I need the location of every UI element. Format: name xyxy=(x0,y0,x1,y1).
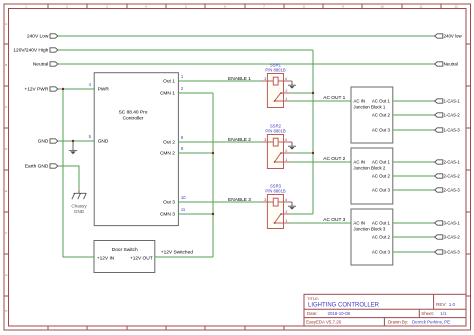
svg-text:CMN 1: CMN 1 xyxy=(160,91,175,97)
svg-text:240V Low: 240V Low xyxy=(27,34,49,40)
svg-text:3: 3 xyxy=(106,5,108,9)
svg-text:1: 1 xyxy=(285,158,287,162)
svg-text:+12V PWR: +12V PWR xyxy=(24,87,48,93)
svg-text:AC Out 2: AC Out 2 xyxy=(372,113,391,118)
ground symbol SSR2 coil xyxy=(288,142,296,150)
wire CMN 2 to bus xyxy=(178,152,213,154)
svg-text:SC 88.40 Pro: SC 88.40 Pro xyxy=(119,110,148,116)
controller pin numbers xyxy=(89,74,187,212)
svg-text:3: 3 xyxy=(264,138,266,142)
svg-text:AC Out 1: AC Out 1 xyxy=(372,221,391,226)
svg-text:B: B xyxy=(5,63,7,67)
svg-text:ENABLE 3: ENABLE 3 xyxy=(228,197,251,203)
svg-text:ENABLE 2: ENABLE 2 xyxy=(228,137,251,143)
relay SSR3 xyxy=(262,183,293,228)
svg-text:LIGHTING CONTROLLER: LIGHTING CONTROLLER xyxy=(308,302,380,308)
port GND xyxy=(38,139,58,145)
wire SSR1 pin2 to High bus xyxy=(290,92,314,94)
svg-text:P/N 8801B: P/N 8801B xyxy=(265,68,285,73)
port 1-CAS-3 xyxy=(435,128,461,133)
wire AC OUT 3 xyxy=(290,222,352,224)
port Neutral (right) xyxy=(435,62,458,67)
svg-text:REV:: REV: xyxy=(436,302,447,307)
svg-text:4: 4 xyxy=(285,77,287,81)
junction SSR2 High bus xyxy=(312,152,314,154)
wire JB3 out3 xyxy=(393,251,435,253)
port 3-CAS-1 xyxy=(435,221,461,226)
svg-text:3-CAS-3: 3-CAS-3 xyxy=(444,250,461,255)
svg-text:CMN 2: CMN 2 xyxy=(160,151,175,157)
port 240V low (right) xyxy=(435,34,463,39)
controller SC 88.40 Pro xyxy=(94,73,178,226)
port 1-CAS-2 xyxy=(435,113,461,118)
ground symbol SSR1 coil xyxy=(288,81,296,89)
svg-text:2-CAS-3: 2-CAS-3 xyxy=(444,188,461,193)
wire AC OUT 2 xyxy=(290,161,352,163)
port 3-CAS-2 xyxy=(435,235,461,240)
wire door switch out (+12V Switched) xyxy=(155,256,214,258)
door switch xyxy=(94,241,155,273)
svg-text:AC Out 3: AC Out 3 xyxy=(372,250,391,255)
svg-text:120V/240V High: 120V/240V High xyxy=(13,48,48,54)
port +12V PWR xyxy=(24,87,57,93)
svg-text:2-CAS-2: 2-CAS-2 xyxy=(444,174,461,179)
port 2-CAS-3 xyxy=(435,188,461,193)
svg-text:10: 10 xyxy=(181,195,186,200)
junction block 2 xyxy=(351,148,393,204)
wire Neutral rail xyxy=(58,63,435,65)
svg-text:AC Out 1: AC Out 1 xyxy=(372,99,391,104)
junction CMN3 xyxy=(212,213,214,215)
svg-text:1-CAS-3: 1-CAS-3 xyxy=(444,128,461,133)
wire JB3 out1 xyxy=(393,222,435,224)
svg-text:AC Out 2: AC Out 2 xyxy=(372,174,391,179)
svg-text:AC Out 3: AC Out 3 xyxy=(372,188,391,193)
wire High vertical bus xyxy=(312,50,314,214)
port 3-CAS-3 xyxy=(435,250,461,255)
svg-text:GND: GND xyxy=(38,139,49,145)
svg-text:2: 2 xyxy=(285,149,287,153)
svg-text:PWR: PWR xyxy=(98,87,110,93)
svg-text:AC Out 3: AC Out 3 xyxy=(372,128,391,133)
port 240V Low (left) xyxy=(27,34,58,40)
port 2-CAS-2 xyxy=(435,174,461,179)
svg-text:F: F xyxy=(5,231,7,235)
wire JB2 out3 xyxy=(393,189,435,191)
wire JB1 out2 xyxy=(393,114,435,116)
svg-text:P/N 8801B: P/N 8801B xyxy=(265,189,285,194)
svg-text:AC Out 1: AC Out 1 xyxy=(372,160,391,165)
relay SSR3 pin numbers xyxy=(264,198,287,223)
svg-text:EasyEDA V5.7.26: EasyEDA V5.7.26 xyxy=(306,320,341,325)
svg-text:1: 1 xyxy=(285,97,287,101)
svg-text:5: 5 xyxy=(185,5,187,9)
junction GND xyxy=(72,140,74,142)
ground symbol SSR3 coil xyxy=(288,202,296,210)
svg-text:Derrick Perkins, PE: Derrick Perkins, PE xyxy=(412,320,450,325)
relay SSR1 pin numbers xyxy=(264,77,287,101)
svg-text:4: 4 xyxy=(285,198,287,202)
svg-text:Chassy: Chassy xyxy=(71,204,87,209)
wire JB1 out3 xyxy=(393,129,435,131)
wire CMN 1 to bus xyxy=(178,92,213,94)
wire GND to controller GND pin xyxy=(58,140,94,142)
svg-text:1/1: 1/1 xyxy=(440,311,447,316)
svg-text:Date:: Date: xyxy=(307,311,318,316)
svg-text:3-CAS-1: 3-CAS-1 xyxy=(444,221,461,226)
svg-text:Controller: Controller xyxy=(123,116,144,122)
svg-text:4: 4 xyxy=(285,138,287,142)
svg-text:9: 9 xyxy=(342,5,344,9)
wire JB2 out2 xyxy=(393,175,435,177)
svg-text:3: 3 xyxy=(264,77,266,81)
wire CMN vertical bus (+12V Switched) xyxy=(212,93,214,257)
wire JB3 out2 xyxy=(393,236,435,238)
port Neutral (left) xyxy=(33,62,58,68)
svg-text:Junction Block 1: Junction Block 1 xyxy=(353,105,386,110)
svg-text:ENABLE 1: ENABLE 1 xyxy=(228,76,251,82)
relay SSR1 xyxy=(262,62,293,107)
wire Earth GND to chassis xyxy=(58,166,79,191)
svg-text:2: 2 xyxy=(285,210,287,214)
svg-text:7: 7 xyxy=(263,5,265,9)
junction block 1 xyxy=(351,87,393,143)
svg-text:Neutral: Neutral xyxy=(33,62,48,68)
wire ENABLE 1 xyxy=(178,80,261,82)
wire 120V/240V High rail xyxy=(58,49,313,51)
svg-text:1-CAS-1: 1-CAS-1 xyxy=(444,99,461,104)
wire ENABLE 3 xyxy=(178,201,261,203)
relay SSR2 pin numbers xyxy=(264,138,287,162)
svg-text:2: 2 xyxy=(66,5,68,9)
label Chassy GND xyxy=(71,204,87,214)
wire CMN 3 to bus xyxy=(178,213,213,215)
svg-text:Sheet:: Sheet: xyxy=(421,311,434,316)
title block xyxy=(304,294,466,326)
svg-text:Out 3: Out 3 xyxy=(163,200,175,206)
svg-text:AC Out 2: AC Out 2 xyxy=(372,235,391,240)
wire SSR3 pin2 to High bus xyxy=(290,213,314,215)
svg-text:Door Switch: Door Switch xyxy=(112,247,138,253)
wire ENABLE 2 xyxy=(178,141,261,143)
svg-text:+12V Switched: +12V Switched xyxy=(161,249,193,255)
svg-text:Neutral: Neutral xyxy=(444,62,458,67)
svg-text:CMN 3: CMN 3 xyxy=(160,212,175,218)
svg-text:GND: GND xyxy=(74,209,85,214)
svg-text:4: 4 xyxy=(145,5,147,9)
junction CMN2 xyxy=(212,152,214,154)
svg-text:Earth GND: Earth GND xyxy=(25,164,49,170)
svg-text:240V low: 240V low xyxy=(444,34,463,39)
svg-text:AC IN: AC IN xyxy=(353,160,365,165)
svg-text:10: 10 xyxy=(380,5,384,9)
svg-text:P/N 8801B: P/N 8801B xyxy=(265,129,285,134)
svg-text:2018-10-08: 2018-10-08 xyxy=(328,311,351,316)
svg-text:Out 2: Out 2 xyxy=(163,140,175,146)
svg-text:6: 6 xyxy=(224,5,226,9)
svg-text:1: 1 xyxy=(285,219,287,223)
svg-text:+12V IN: +12V IN xyxy=(97,255,115,261)
ground symbol GND xyxy=(69,141,78,154)
svg-text:AC IN: AC IN xyxy=(353,221,365,226)
svg-text:E: E xyxy=(5,189,7,193)
svg-text:8: 8 xyxy=(303,5,305,9)
svg-text:Out 1: Out 1 xyxy=(163,79,175,85)
chassis ground symbol xyxy=(72,193,86,199)
port Earth GND xyxy=(25,164,58,170)
junction SSR1 High bus xyxy=(312,92,314,94)
junction +12V PWR xyxy=(62,88,64,90)
wire JB1 out1 xyxy=(393,100,435,102)
svg-text:11: 11 xyxy=(419,5,422,9)
wire +12V PWR to controller PWR pin xyxy=(58,88,94,90)
svg-text:2-CAS-1: 2-CAS-1 xyxy=(444,160,461,165)
wire +12V vertical to door switch xyxy=(63,89,95,257)
relay SSR2 xyxy=(262,123,293,168)
svg-text:11: 11 xyxy=(181,207,186,212)
port 2-CAS-1 xyxy=(435,160,461,165)
chassis ground pin xyxy=(78,191,80,194)
svg-text:Junction Block 2: Junction Block 2 xyxy=(353,166,386,171)
svg-text:+12V OUT: +12V OUT xyxy=(130,255,153,261)
svg-text:AC IN: AC IN xyxy=(353,99,365,104)
svg-text:1: 1 xyxy=(25,5,27,9)
junction block 3 xyxy=(351,209,393,265)
svg-text:12: 12 xyxy=(454,5,458,9)
svg-text:AC OUT 3: AC OUT 3 xyxy=(323,217,345,223)
svg-text:TITLE:: TITLE: xyxy=(307,296,319,301)
svg-text:2: 2 xyxy=(285,89,287,93)
wire AC OUT 1 xyxy=(290,100,352,102)
svg-text:GND: GND xyxy=(98,139,109,145)
svg-text:3-CAS-2: 3-CAS-2 xyxy=(444,235,461,240)
svg-text:1.0: 1.0 xyxy=(449,302,456,307)
port 120V/240V High (left) xyxy=(13,48,58,54)
svg-text:Junction Block 3: Junction Block 3 xyxy=(353,227,386,232)
svg-text:3: 3 xyxy=(264,198,266,202)
svg-text:AC OUT 1: AC OUT 1 xyxy=(323,95,345,101)
svg-text:1-CAS-2: 1-CAS-2 xyxy=(444,113,461,118)
wire JB2 out1 xyxy=(393,161,435,163)
svg-text:Drawn By:: Drawn By: xyxy=(388,320,408,325)
svg-text:H: H xyxy=(5,309,7,313)
wire SSR2 pin2 to High bus xyxy=(290,152,314,154)
svg-text:AC OUT 2: AC OUT 2 xyxy=(323,156,345,162)
port 1-CAS-1 xyxy=(435,99,461,104)
wire 240V Low rail xyxy=(58,35,435,37)
